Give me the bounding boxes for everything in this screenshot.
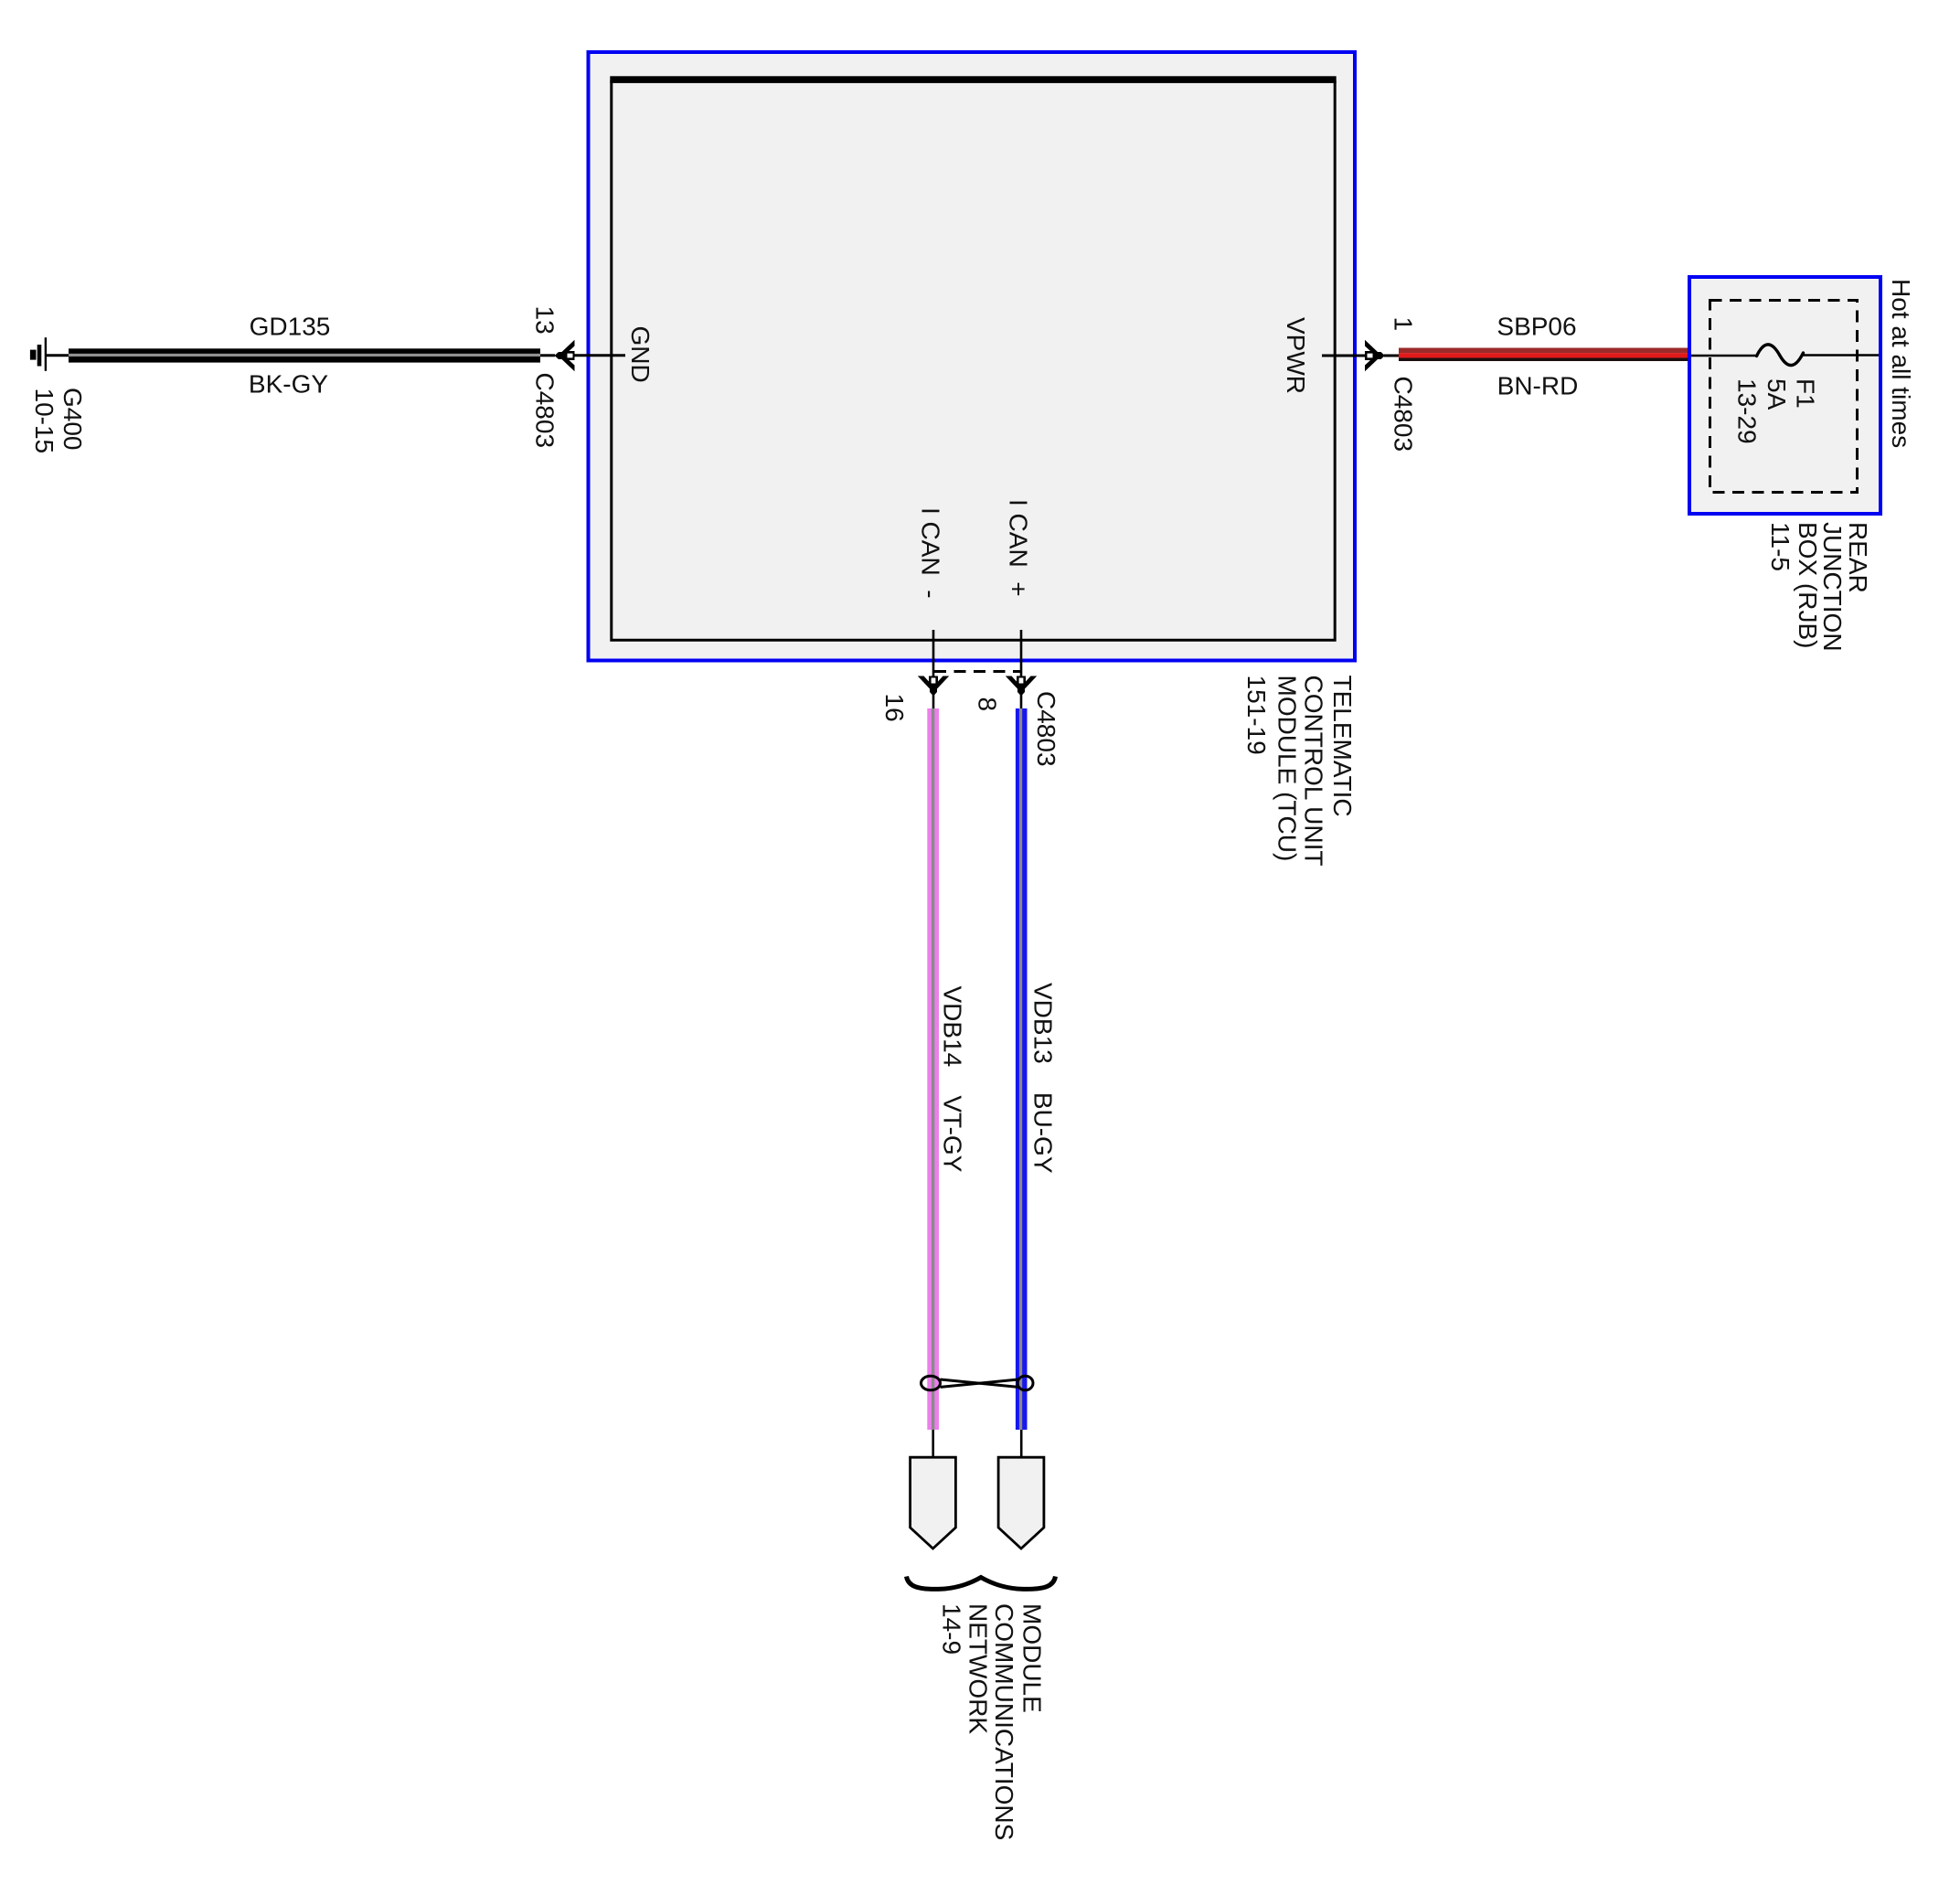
svg-text:BK-GY: BK-GY xyxy=(249,369,328,398)
pin name I CAN + xyxy=(1005,499,1033,597)
wire stub I CAN + xyxy=(1020,630,1023,677)
svg-text:5A: 5A xyxy=(1763,378,1791,410)
TCU label TELEMATIC CONTROL UNIT MODULE (TCU) 151-19 xyxy=(1242,676,1357,867)
stub below VDB13 xyxy=(1020,1430,1023,1457)
svg-text:14-9: 14-9 xyxy=(938,1603,966,1655)
module TCU inner box xyxy=(610,76,1336,640)
label GD135 xyxy=(250,313,331,341)
stub below arrow 16 xyxy=(932,693,935,709)
rear junction box RJB xyxy=(1689,277,1880,514)
label BK-GY xyxy=(249,369,328,398)
svg-text:8: 8 xyxy=(974,697,1002,712)
arrow at pin 8 xyxy=(1006,676,1037,697)
svg-text:VDB14 VT-GY: VDB14 VT-GY xyxy=(939,986,967,1173)
label VDB13 BU-GY xyxy=(1029,983,1058,1174)
svg-text:1: 1 xyxy=(1390,317,1418,332)
off-page connector (VDB13) xyxy=(998,1457,1044,1549)
svg-text:C4803: C4803 xyxy=(531,373,559,449)
connector C4803 (GND) xyxy=(531,373,559,449)
pin number 1 xyxy=(1390,317,1418,332)
svg-text:MODULE: MODULE xyxy=(1018,1603,1047,1713)
wire stub into GND pin xyxy=(540,354,625,357)
connector C4803 (VPWR) xyxy=(1390,377,1418,452)
svg-text:NETWORK: NETWORK xyxy=(964,1603,993,1734)
RJB dashed fuse block outline xyxy=(1710,301,1858,493)
label VDB14 VT-GY xyxy=(939,986,967,1173)
pin number 16 xyxy=(880,694,909,722)
wire SBP06 BN-RD xyxy=(1399,348,1688,362)
label BN-RD xyxy=(1497,372,1579,400)
svg-text:GND: GND xyxy=(626,326,655,383)
svg-text:C4803: C4803 xyxy=(1032,691,1060,767)
stub below VDB14 xyxy=(932,1430,934,1457)
svg-text:10-15: 10-15 xyxy=(30,389,59,454)
svg-text:BOX (RJB): BOX (RJB) xyxy=(1794,522,1822,648)
svg-text:16: 16 xyxy=(880,694,909,722)
svg-text:13-29: 13-29 xyxy=(1733,378,1762,444)
svg-text:C4803: C4803 xyxy=(1390,377,1418,452)
svg-text:MODULE (TCU): MODULE (TCU) xyxy=(1273,676,1302,862)
svg-text:VDB13 BU-GY: VDB13 BU-GY xyxy=(1029,983,1058,1174)
label SBP06 xyxy=(1497,313,1576,341)
wire GD135 BK-GY (GND) xyxy=(69,348,540,362)
svg-text:REAR: REAR xyxy=(1844,522,1872,593)
svg-text:BN-RD: BN-RD xyxy=(1497,372,1579,400)
net label Hot at all times xyxy=(1887,279,1915,448)
pin name GND xyxy=(626,326,655,383)
svg-text:SBP06: SBP06 xyxy=(1497,313,1576,341)
svg-text:G400: G400 xyxy=(59,388,87,451)
svg-text:GD135: GD135 xyxy=(250,313,331,341)
wire stub out of VPWR pin xyxy=(1322,355,1400,357)
pin number 13 xyxy=(531,306,559,335)
pin name I CAN - xyxy=(917,507,945,599)
svg-text:13: 13 xyxy=(531,306,559,335)
svg-text:I CAN -: I CAN - xyxy=(917,507,945,599)
wire VDB13 BU-GY xyxy=(1016,708,1028,1430)
brace xyxy=(907,1577,1056,1590)
ground label G400 10-15 xyxy=(30,388,87,453)
ground G400 xyxy=(30,337,69,371)
svg-text:COMMUNICATIONS: COMMUNICATIONS xyxy=(990,1603,1018,1840)
svg-text:I CAN +: I CAN + xyxy=(1005,499,1033,597)
twisted pair symbol xyxy=(921,1376,1034,1390)
off-page connector (VDB14) xyxy=(911,1457,956,1549)
net label MODULE COMMUNICATIONS NETWORK 14-9 xyxy=(938,1603,1047,1840)
svg-text:11-5: 11-5 xyxy=(1766,522,1795,571)
svg-text:TELEMATIC: TELEMATIC xyxy=(1328,676,1357,817)
svg-text:CONTROL UNIT: CONTROL UNIT xyxy=(1300,676,1328,867)
connector C4803 (CAN) xyxy=(1032,691,1060,767)
fuse F1 5A 13-29 xyxy=(1691,345,1879,444)
arrow at pin 16 xyxy=(918,676,949,697)
pin number 8 xyxy=(974,697,1002,712)
wire VDB14 VT-GY xyxy=(927,708,939,1430)
svg-text:VPWR: VPWR xyxy=(1282,317,1310,394)
pin name VPWR xyxy=(1282,317,1310,394)
svg-text:F1: F1 xyxy=(1792,378,1820,409)
dashed connector link C4803 xyxy=(934,670,1020,673)
svg-text:Hot at all times: Hot at all times xyxy=(1887,279,1915,448)
stub below arrow 8 xyxy=(1020,693,1023,709)
arrow at pin 13 xyxy=(555,340,575,371)
module TCU outer box xyxy=(589,52,1356,661)
RJB label REAR JUNCTION BOX (RJB) 11-5 xyxy=(1766,522,1872,652)
wire stub I CAN - xyxy=(932,630,935,677)
svg-text:151-19: 151-19 xyxy=(1242,676,1271,755)
arrow at pin 1 xyxy=(1365,340,1385,371)
